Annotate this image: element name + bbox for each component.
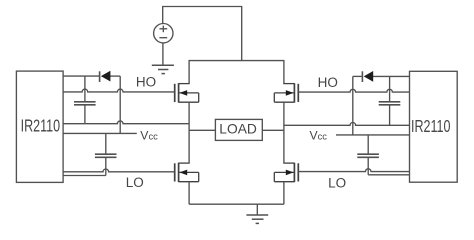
wire: top-right drain vertical — [283, 60, 285, 84]
diode D2 (right bootstrap): wire — [353, 75, 362, 77]
wire: right diode vertical to Vcc — [352, 76, 354, 134]
ground under V1 — [152, 64, 174, 66]
LOAD box — [215, 119, 262, 140]
svg-text:IR2110: IR2110 — [411, 117, 450, 137]
wire: left diode vertical to Vcc — [119, 76, 121, 133]
wire COM left — [63, 175, 106, 177]
ground at bridge bottom — [256, 204, 258, 215]
diode D1 cathode bar — [99, 71, 101, 82]
wire HO left (with hops) — [63, 89, 175, 92]
svg-text:HO: HO — [318, 75, 338, 90]
transistor Q1 (high side left) — [175, 83, 199, 102]
wire LO right (with hop) — [298, 169, 409, 172]
wire: load right — [262, 129, 284, 131]
diode D2 cathode bar — [361, 71, 363, 82]
wire: left phase node vertical — [188, 102, 190, 163]
label IR2110 left — [21, 117, 60, 137]
wire: load left — [189, 129, 215, 131]
capacitor C2 (left Vcc) leads — [105, 133, 107, 153]
svg-text:Vcc: Vcc — [140, 128, 158, 142]
wire: bottom-left source vertical — [188, 182, 190, 205]
wire Vs left (with hop) — [63, 121, 189, 124]
wire Vs right (with hop) — [284, 123, 410, 126]
svg-text:LO: LO — [126, 175, 144, 190]
transistor Q2 (high side right) — [274, 83, 298, 102]
diode D2 triangle — [364, 71, 374, 82]
svg-text:LO: LO — [328, 175, 346, 190]
capacitor C3 (right bootstrap) leads — [389, 76, 391, 101]
wire Vcc right — [336, 134, 410, 136]
diode D1 triangle — [101, 71, 111, 82]
svg-text:IR2110: IR2110 — [21, 117, 60, 137]
voltage source V1 — [154, 24, 173, 43]
wire: right phase node vertical — [283, 102, 285, 163]
capacitor C1 (left bootstrap) leads — [84, 76, 86, 101]
diode D1 (left bootstrap): wire — [63, 75, 99, 77]
wire: V1 bottom lead — [162, 43, 164, 65]
capacitor C2 plates — [95, 153, 117, 155]
capacitor C4 (right Vcc) leads — [367, 135, 369, 154]
wire HO right (with hops) — [298, 89, 409, 92]
transistor Q3 (low side left) — [175, 163, 199, 182]
IR2110 driver U2 (right box) — [410, 71, 458, 182]
capacitor C3 plates — [379, 101, 401, 103]
transistor Q4 (low side right) — [274, 163, 298, 182]
svg-text:LOAD: LOAD — [219, 121, 257, 136]
wire COM right — [368, 174, 409, 176]
wire: bottom-right source vertical — [283, 182, 285, 205]
IR2110 driver U1 (left box) — [16, 71, 63, 182]
wire: V1 top lead and loop to bridge top — [163, 7, 242, 61]
svg-text:HO: HO — [136, 75, 156, 90]
wire: bridge top edge — [189, 60, 284, 62]
label IR2110 right — [411, 117, 450, 137]
svg-text:Vcc: Vcc — [310, 128, 328, 142]
wire: bridge bottom edge — [189, 203, 284, 205]
wire Vcc left — [63, 132, 137, 134]
wire LO left (with hop) — [63, 169, 175, 172]
capacitor C1 plates — [74, 101, 96, 103]
wire: top-left drain vertical — [188, 60, 190, 84]
capacitor C4 plates — [357, 153, 379, 155]
